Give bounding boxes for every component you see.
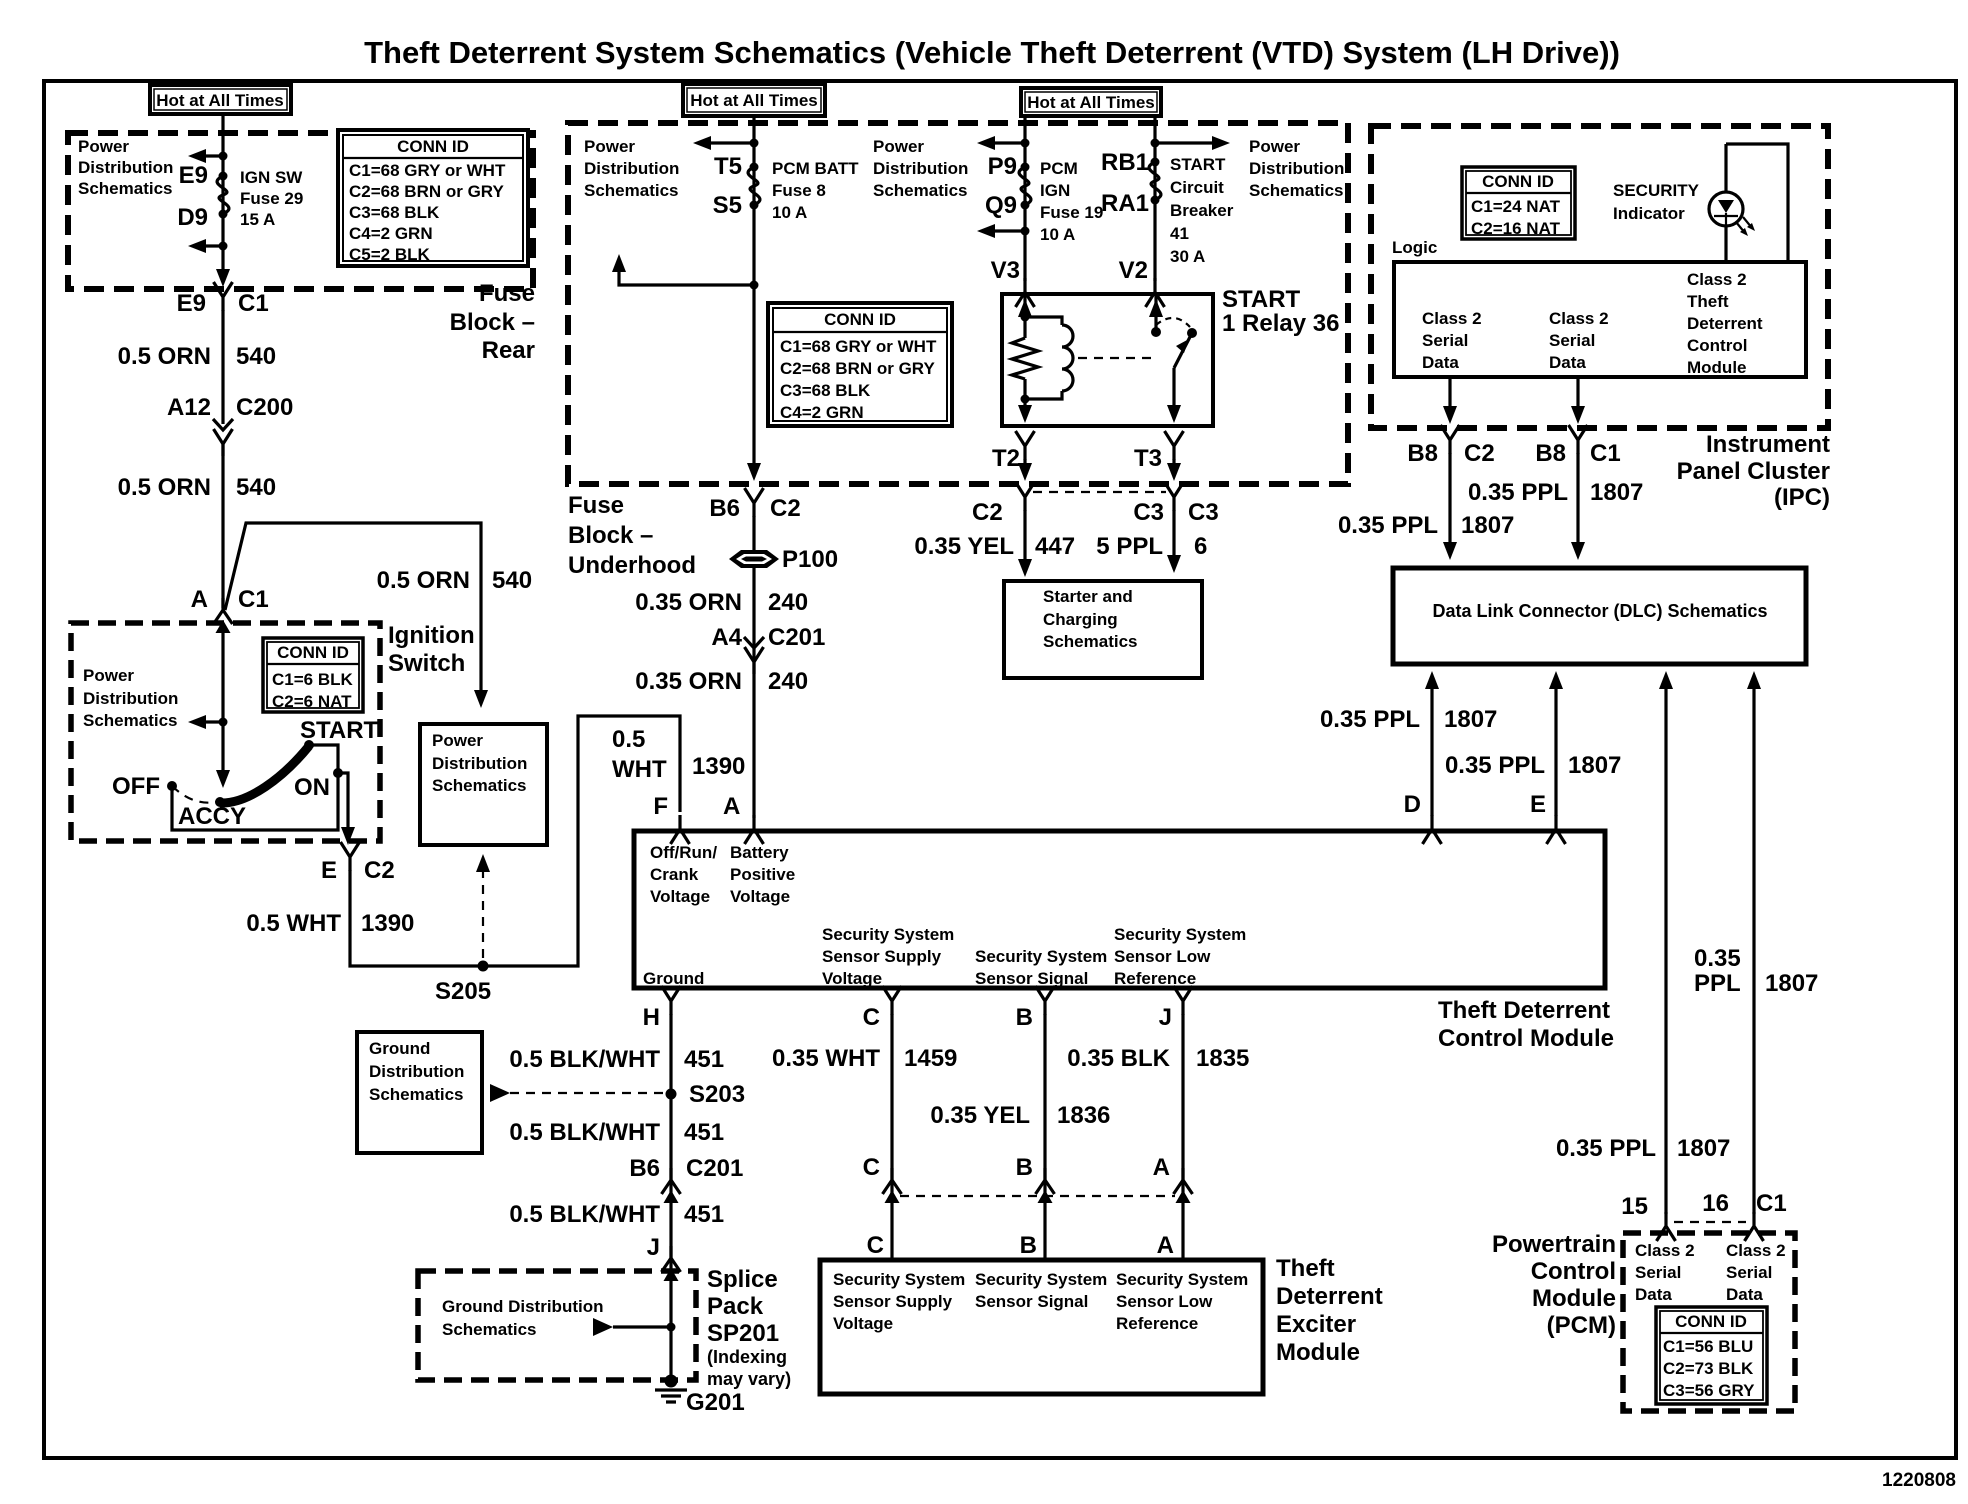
svg-text:30 A: 30 A [1170,247,1205,266]
svg-text:Security System: Security System [1114,925,1246,944]
svg-text:C2=68 BRN or GRY: C2=68 BRN or GRY [349,182,504,201]
svg-text:0.35 YEL: 0.35 YEL [914,533,1014,560]
svg-text:Voltage: Voltage [833,1314,893,1333]
svg-text:Circuit: Circuit [1170,178,1224,197]
svg-text:1 Relay 36: 1 Relay 36 [1222,310,1339,337]
svg-text:D: D [1404,791,1421,818]
svg-text:Data: Data [1635,1285,1672,1304]
svg-text:PPL: PPL [1694,970,1741,997]
svg-text:B: B [1020,1232,1037,1259]
svg-text:Reference: Reference [1116,1314,1198,1333]
svg-text:Power: Power [78,137,129,156]
svg-text:Breaker: Breaker [1170,201,1234,220]
svg-text:A: A [1153,1154,1170,1181]
svg-text:1807: 1807 [1568,752,1621,779]
svg-text:1807: 1807 [1444,706,1497,733]
svg-text:Reference: Reference [1114,969,1196,988]
svg-text:E9: E9 [179,162,208,189]
svg-text:0.5 WHT: 0.5 WHT [246,910,341,937]
svg-text:C4=2 GRN: C4=2 GRN [349,224,433,243]
svg-text:Sensor Signal: Sensor Signal [975,969,1088,988]
svg-text:E9: E9 [177,290,206,317]
svg-text:Ignition: Ignition [388,622,475,649]
svg-text:F: F [653,793,668,820]
svg-text:IGN SW: IGN SW [240,168,303,187]
svg-text:PCM BATT: PCM BATT [772,159,859,178]
svg-text:Schematics: Schematics [83,711,178,730]
svg-text:Module: Module [1276,1339,1360,1366]
svg-text:Distribution: Distribution [873,159,968,178]
svg-text:15 A: 15 A [240,210,275,229]
svg-text:CONN ID: CONN ID [1675,1312,1747,1331]
svg-text:Ground: Ground [369,1039,430,1058]
svg-text:Distribution: Distribution [584,159,679,178]
svg-text:Schematics: Schematics [78,179,173,198]
svg-text:E: E [321,857,337,884]
svg-text:Fuse: Fuse [568,492,624,519]
svg-text:A12: A12 [167,394,211,421]
svg-text:RB1: RB1 [1101,149,1149,176]
svg-text:Power: Power [873,137,924,156]
svg-text:V2: V2 [1119,257,1148,284]
svg-text:Fuse 19: Fuse 19 [1040,203,1103,222]
svg-text:240: 240 [768,668,808,695]
svg-text:START: START [300,717,379,744]
svg-text:C2=73 BLK: C2=73 BLK [1663,1359,1754,1378]
svg-text:A4: A4 [711,624,742,651]
svg-text:Positive: Positive [730,865,795,884]
svg-text:0.35 YEL: 0.35 YEL [930,1102,1030,1129]
svg-text:Block –: Block – [450,309,535,336]
svg-text:Security System: Security System [975,947,1107,966]
svg-text:451: 451 [684,1201,724,1228]
svg-text:C1=6 BLK: C1=6 BLK [272,670,353,689]
svg-text:Logic: Logic [1392,238,1437,257]
svg-text:Serial: Serial [1422,331,1468,350]
svg-text:0.35 WHT: 0.35 WHT [772,1045,880,1072]
svg-text:Module: Module [1687,358,1747,377]
svg-text:451: 451 [684,1119,724,1146]
svg-text:Module: Module [1532,1285,1616,1312]
svg-text:B: B [1016,1154,1033,1181]
svg-text:J: J [1159,1004,1172,1031]
svg-text:Powertrain: Powertrain [1492,1231,1616,1258]
svg-text:1807: 1807 [1590,479,1643,506]
svg-text:P9: P9 [988,153,1017,180]
svg-text:Off/Run/: Off/Run/ [650,843,717,862]
svg-text:V3: V3 [991,257,1020,284]
svg-text:0.35 PPL: 0.35 PPL [1445,752,1545,779]
svg-text:6: 6 [1194,533,1207,560]
svg-text:Security System: Security System [1116,1270,1248,1289]
svg-text:1390: 1390 [692,753,745,780]
svg-text:S203: S203 [689,1081,745,1108]
svg-text:Sensor Low: Sensor Low [1116,1292,1213,1311]
svg-text:Ground Distribution: Ground Distribution [442,1297,603,1316]
svg-text:C: C [863,1154,880,1181]
svg-text:Power: Power [432,731,483,750]
svg-text:Distribution: Distribution [83,689,178,708]
svg-text:C2: C2 [770,495,801,522]
svg-text:Ground: Ground [643,969,704,988]
svg-text:0.5 BLK/WHT: 0.5 BLK/WHT [509,1119,660,1146]
svg-text:540: 540 [236,474,276,501]
svg-text:Q9: Q9 [985,192,1017,219]
svg-text:C2: C2 [1464,440,1495,467]
svg-text:C2=68 BRN or GRY: C2=68 BRN or GRY [780,359,935,378]
svg-text:E: E [1530,791,1546,818]
svg-text:Hot at All Times: Hot at All Times [1027,93,1155,112]
svg-text:0.5: 0.5 [612,726,645,753]
svg-text:A: A [1157,1232,1174,1259]
svg-text:B8: B8 [1407,440,1438,467]
svg-text:10 A: 10 A [772,203,807,222]
svg-text:ACCY: ACCY [178,803,246,830]
svg-text:Sensor Supply: Sensor Supply [833,1292,953,1311]
svg-text:Voltage: Voltage [650,887,710,906]
svg-text:15: 15 [1621,1193,1648,1220]
svg-text:0.35 PPL: 0.35 PPL [1468,479,1568,506]
svg-text:may vary): may vary) [707,1369,791,1389]
svg-text:CONN ID: CONN ID [1482,172,1554,191]
svg-text:WHT: WHT [612,756,667,783]
svg-text:C1=68 GRY or WHT: C1=68 GRY or WHT [349,161,506,180]
svg-text:C1: C1 [1756,1190,1787,1217]
svg-text:C3=68 BLK: C3=68 BLK [780,381,871,400]
svg-text:C2=16 NAT: C2=16 NAT [1471,219,1561,238]
svg-text:Security System: Security System [833,1270,965,1289]
svg-text:Deterrent: Deterrent [1276,1283,1383,1310]
svg-text:1807: 1807 [1765,970,1818,997]
svg-text:Power: Power [1249,137,1300,156]
svg-text:Sensor Low: Sensor Low [1114,947,1211,966]
svg-text:B: B [1016,1004,1033,1031]
svg-text:0.5 BLK/WHT: 0.5 BLK/WHT [509,1201,660,1228]
svg-text:0.35 ORN: 0.35 ORN [635,589,742,616]
svg-text:OFF: OFF [112,773,160,800]
svg-text:C3: C3 [1188,499,1219,526]
svg-text:C201: C201 [768,624,825,651]
svg-text:C1=24 NAT: C1=24 NAT [1471,197,1561,216]
svg-text:10 A: 10 A [1040,225,1075,244]
svg-text:C: C [867,1232,884,1259]
svg-text:Schematics: Schematics [432,776,527,795]
svg-text:C4=2 GRN: C4=2 GRN [780,403,864,422]
svg-text:Schematics: Schematics [584,181,679,200]
svg-text:Crank: Crank [650,865,699,884]
svg-text:G201: G201 [686,1389,745,1416]
svg-text:Data: Data [1726,1285,1763,1304]
svg-text:447: 447 [1035,533,1075,560]
svg-text:1390: 1390 [361,910,414,937]
svg-text:Splice: Splice [707,1266,778,1293]
svg-text:Switch: Switch [388,650,465,677]
svg-text:Pack: Pack [707,1293,764,1320]
svg-text:Voltage: Voltage [730,887,790,906]
svg-text:Battery: Battery [730,843,789,862]
svg-text:0.35 PPL: 0.35 PPL [1556,1135,1656,1162]
svg-text:0.5 BLK/WHT: 0.5 BLK/WHT [509,1046,660,1073]
svg-text:C201: C201 [686,1155,743,1182]
svg-text:0.35 ORN: 0.35 ORN [635,668,742,695]
svg-text:0.35: 0.35 [1694,945,1741,972]
svg-text:C200: C200 [236,394,293,421]
svg-text:1835: 1835 [1196,1045,1249,1072]
svg-text:Schematics: Schematics [1043,632,1138,651]
svg-text:Class 2: Class 2 [1422,309,1482,328]
svg-text:1836: 1836 [1057,1102,1110,1129]
svg-text:Indicator: Indicator [1613,204,1685,223]
svg-text:Data: Data [1422,353,1459,372]
svg-text:Distribution: Distribution [78,158,173,177]
svg-text:C5=2 BLK: C5=2 BLK [349,245,430,264]
svg-text:Fuse: Fuse [479,280,535,307]
svg-text:Hot at All Times: Hot at All Times [156,91,284,110]
svg-text:Distribution: Distribution [432,754,527,773]
svg-text:540: 540 [492,567,532,594]
svg-text:240: 240 [768,589,808,616]
svg-text:540: 540 [236,343,276,370]
svg-text:Serial: Serial [1549,331,1595,350]
svg-text:Schematics: Schematics [442,1320,537,1339]
svg-text:(PCM): (PCM) [1547,1312,1616,1339]
svg-text:Exciter: Exciter [1276,1311,1356,1338]
svg-text:16: 16 [1702,1190,1729,1217]
svg-text:Power: Power [83,666,134,685]
svg-text:Fuse 29: Fuse 29 [240,189,303,208]
svg-text:Class 2: Class 2 [1687,270,1747,289]
svg-text:T3: T3 [1134,445,1162,472]
svg-text:C1: C1 [1590,440,1621,467]
svg-text:Underhood: Underhood [568,552,696,579]
svg-text:Voltage: Voltage [822,969,882,988]
svg-text:C1=68 GRY or WHT: C1=68 GRY or WHT [780,337,937,356]
svg-text:CONN ID: CONN ID [277,643,349,662]
svg-text:C: C [863,1004,880,1031]
svg-text:Theft: Theft [1276,1255,1335,1282]
svg-text:Data: Data [1549,353,1586,372]
svg-text:Fuse 8: Fuse 8 [772,181,826,200]
svg-text:C3: C3 [1133,499,1164,526]
svg-text:C1=56 BLU: C1=56 BLU [1663,1337,1753,1356]
svg-text:Security System: Security System [975,1270,1107,1289]
svg-text:Serial: Serial [1726,1263,1772,1282]
svg-text:1807: 1807 [1461,512,1514,539]
svg-text:Schematics: Schematics [873,181,968,200]
svg-text:Sensor Supply: Sensor Supply [822,947,942,966]
svg-text:B6: B6 [709,495,740,522]
svg-text:SP201: SP201 [707,1320,779,1347]
svg-text:B6: B6 [629,1155,660,1182]
svg-text:Control: Control [1687,336,1747,355]
svg-text:0.35 PPL: 0.35 PPL [1320,706,1420,733]
svg-text:Deterrent: Deterrent [1687,314,1763,333]
svg-text:D9: D9 [177,204,208,231]
svg-text:0.5 ORN: 0.5 ORN [118,474,211,501]
svg-text:41: 41 [1170,224,1189,243]
svg-text:T2: T2 [992,445,1020,472]
svg-text:IGN: IGN [1040,181,1070,200]
svg-text:1459: 1459 [904,1045,957,1072]
svg-text:S5: S5 [713,192,742,219]
svg-text:A: A [191,586,208,613]
svg-text:Panel Cluster: Panel Cluster [1677,458,1830,485]
svg-text:Data Link Connector (DLC) Sche: Data Link Connector (DLC) Schematics [1432,601,1767,621]
svg-text:0.5 ORN: 0.5 ORN [377,567,470,594]
svg-text:PCM: PCM [1040,159,1078,178]
svg-text:T5: T5 [714,153,742,180]
svg-text:Theft Deterrent: Theft Deterrent [1438,997,1610,1024]
svg-text:C2: C2 [364,857,395,884]
svg-text:Block –: Block – [568,522,653,549]
svg-text:SECURITY: SECURITY [1613,181,1700,200]
svg-text:B8: B8 [1535,440,1566,467]
svg-text:Power: Power [584,137,635,156]
svg-text:Starter and: Starter and [1043,587,1133,606]
svg-text:451: 451 [684,1046,724,1073]
svg-text:1807: 1807 [1677,1135,1730,1162]
svg-text:START: START [1222,286,1301,313]
svg-text:Charging: Charging [1043,610,1118,629]
svg-text:Instrument: Instrument [1706,431,1830,458]
svg-text:Class 2: Class 2 [1635,1241,1695,1260]
svg-text:Security System: Security System [822,925,954,944]
svg-text:Schematics: Schematics [369,1085,464,1104]
svg-text:Serial: Serial [1635,1263,1681,1282]
svg-text:Schematics: Schematics [1249,181,1344,200]
svg-text:Class 2: Class 2 [1726,1241,1786,1260]
svg-text:0.35 PPL: 0.35 PPL [1338,512,1438,539]
svg-text:J: J [647,1234,660,1261]
svg-text:C2=6 NAT: C2=6 NAT [272,692,352,711]
svg-text:CONN ID: CONN ID [397,137,469,156]
svg-text:S205: S205 [435,978,491,1005]
svg-text:0.35 BLK: 0.35 BLK [1067,1045,1170,1072]
svg-text:H: H [643,1004,660,1031]
svg-text:(Indexing: (Indexing [707,1347,787,1367]
svg-text:P100: P100 [782,546,838,573]
svg-text:Theft Deterrent System Schemat: Theft Deterrent System Schematics (Vehic… [364,35,1620,70]
svg-text:C3=56 GRY: C3=56 GRY [1663,1381,1755,1400]
svg-text:Theft: Theft [1687,292,1729,311]
svg-text:5 PPL: 5 PPL [1096,533,1163,560]
svg-text:(IPC): (IPC) [1774,484,1830,511]
svg-text:Control: Control [1531,1258,1616,1285]
svg-text:C3=68 BLK: C3=68 BLK [349,203,440,222]
svg-text:A: A [723,793,740,820]
svg-text:C1: C1 [238,586,269,613]
svg-text:1220808: 1220808 [1882,1470,1956,1491]
svg-text:Class 2: Class 2 [1549,309,1609,328]
svg-text:Distribution: Distribution [1249,159,1344,178]
svg-text:Control Module: Control Module [1438,1025,1614,1052]
svg-text:Distribution: Distribution [369,1062,464,1081]
svg-text:START: START [1170,155,1226,174]
svg-text:C1: C1 [238,290,269,317]
svg-text:Sensor Signal: Sensor Signal [975,1292,1088,1311]
svg-text:Hot at All Times: Hot at All Times [690,91,818,110]
svg-text:Rear: Rear [482,337,535,364]
svg-text:ON: ON [294,774,330,801]
svg-text:C2: C2 [972,499,1003,526]
svg-text:RA1: RA1 [1101,190,1149,217]
svg-text:CONN ID: CONN ID [824,310,896,329]
svg-text:0.5 ORN: 0.5 ORN [118,343,211,370]
